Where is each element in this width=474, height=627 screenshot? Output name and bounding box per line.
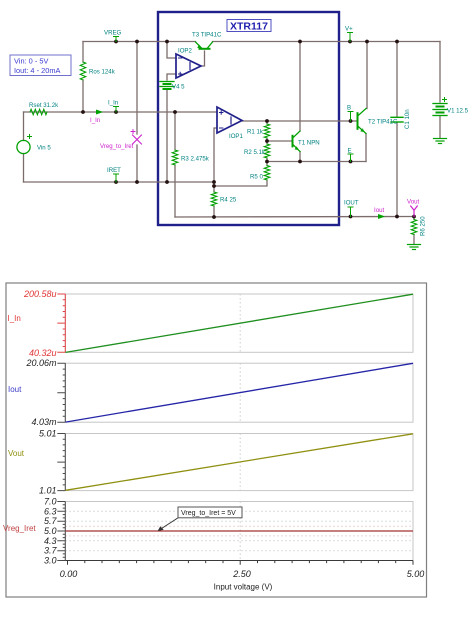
svg-text:I_In: I_In	[8, 314, 21, 323]
node V+ pin	[348, 40, 352, 44]
wire IOP1 minus / R4 vertical	[214, 128, 217, 192]
svg-text:T1 NPN: T1 NPN	[298, 140, 320, 147]
node V4 bottom	[165, 180, 169, 184]
svg-text:Vout: Vout	[407, 199, 420, 206]
wire T1 base	[267, 140, 292, 142]
wire C1 top lead	[396, 42, 398, 118]
wire V1 battery top lead	[439, 42, 441, 103]
wire Ros vertical (VREG to I_In node)	[82, 42, 84, 63]
svg-text:Vout: Vout	[8, 449, 25, 458]
node IRET pin	[114, 180, 118, 184]
node R2/R5 junction on E net	[265, 160, 269, 164]
node T2 collector on V+	[365, 40, 369, 44]
resistor R4 25	[211, 192, 217, 206]
svg-text:R4 25: R4 25	[220, 197, 237, 204]
svg-text:B: B	[347, 105, 351, 112]
wire R3 vertical (I_In to IOUT rail)	[174, 112, 176, 150]
node probe bottom	[135, 180, 139, 184]
svg-text:Iout: Iout	[374, 207, 384, 214]
op-amp IOP1	[217, 107, 242, 133]
wire probe vertical lower (X probe to IRET rail)	[136, 145, 138, 182]
op-amp IOP2	[176, 54, 201, 78]
trace Vout (olive)	[66, 434, 414, 491]
svg-text:Ros 124k: Ros 124k	[89, 69, 116, 76]
wire VREG rail (top left segment)	[83, 41, 196, 43]
XTR117 device boundary box	[158, 12, 339, 225]
node T1 collector on V+	[298, 40, 302, 44]
wire R1-R2 chain stubs	[266, 121, 268, 124]
node E pin	[349, 160, 353, 164]
node Vout pin	[412, 215, 416, 219]
svg-text:Vin: 0 - 5V: Vin: 0 - 5V	[14, 57, 48, 66]
trace I_In (green)	[66, 294, 414, 352]
node R5 return	[212, 184, 216, 188]
node T1 base tap	[265, 139, 269, 143]
node IOUT pin	[349, 215, 353, 219]
svg-text:IOP1: IOP1	[229, 133, 243, 140]
svg-text:20.06m: 20.06m	[25, 358, 57, 368]
battery V4 5	[160, 82, 174, 90]
transistor T1 NPN	[293, 131, 301, 152]
svg-text:I_In: I_In	[108, 100, 118, 107]
wire T1 collector to V+ rail	[299, 42, 301, 132]
svg-text:E: E	[348, 148, 352, 155]
battery V1 12.5	[433, 98, 447, 116]
svg-text:T2 TIP41C: T2 TIP41C	[368, 119, 398, 126]
trace Vreg_Iret (dark red)	[66, 530, 414, 532]
wire R5 bottom return	[214, 180, 267, 186]
trace Iout (blue)	[66, 363, 414, 422]
node B pin	[349, 119, 353, 123]
wire IOP2 minus input from VREG rail	[167, 42, 176, 59]
resistor Ros 124k	[80, 62, 86, 80]
ground for V1	[434, 139, 447, 144]
wire V4 bottom to IRET rail	[166, 89, 168, 182]
svg-text:R3 2.475k: R3 2.475k	[181, 156, 210, 163]
wire C1 bottom lead	[396, 123, 398, 217]
pin tick IOUT	[348, 207, 353, 217]
svg-text:Vreg_to_Iret = 5V: Vreg_to_Iret = 5V	[181, 510, 236, 517]
capacitor C1 10n	[391, 117, 403, 122]
svg-text:T3 TIP41C: T3 TIP41C	[192, 32, 222, 39]
svg-text:Vreg_Iret: Vreg_Iret	[3, 524, 36, 533]
plot window outer border	[6, 283, 427, 597]
annotation callout Vreg_to_Iret = 5V	[158, 507, 243, 531]
wire IRET rail	[24, 181, 215, 183]
probe X Vreg_to_Iret	[131, 130, 142, 145]
dotted horizontal gridlines plot4	[65, 511, 413, 550]
svg-text:R2 5.1k: R2 5.1k	[244, 149, 266, 156]
plot1 y-axis (red)	[57, 294, 65, 352]
pin tick VREG	[114, 37, 119, 42]
junction dots	[81, 40, 416, 219]
svg-text:V+: V+	[345, 26, 353, 33]
svg-text:0.00: 0.00	[60, 569, 78, 579]
resistor Rset 31.2k	[30, 109, 47, 115]
svg-text:Rset 31.2k: Rset 31.2k	[29, 102, 59, 109]
wire T2 emitter vertical	[365, 134, 367, 162]
schematic text labels (teal)	[29, 26, 469, 237]
node C1 bottom	[395, 215, 399, 219]
svg-text:2.50: 2.50	[232, 569, 251, 579]
svg-text:Vreg_to_Iret: Vreg_to_Iret	[100, 143, 134, 150]
svg-text:Iout: Iout	[8, 385, 22, 394]
wire V1 battery bottom to ground	[439, 116, 441, 138]
current arrow I_In	[97, 110, 103, 114]
wire probe vertical upper (VREG to X probe)	[136, 42, 138, 135]
svg-text:I_In: I_In	[90, 117, 100, 124]
wire V+ rail (top right segment)	[213, 41, 441, 43]
svg-text:Iout: 4 - 20mA: Iout: 4 - 20mA	[14, 66, 60, 75]
ground for R6	[408, 245, 421, 250]
voltage source Vin 5 (circle)	[17, 140, 30, 153]
dotted vertical gridlines at 2.50	[239, 294, 241, 561]
green component symbols	[17, 33, 447, 250]
wire IOP2 output to T3 base	[201, 51, 205, 66]
resistor R2 5.1k	[264, 144, 270, 158]
svg-text:7.0: 7.0	[44, 497, 57, 507]
pin tick I_In	[114, 107, 119, 113]
pin Vout (magenta)	[411, 206, 418, 216]
svg-text:6.3: 6.3	[44, 506, 57, 516]
resistor R6 250	[411, 220, 417, 235]
node Ros bottom	[81, 110, 85, 114]
svg-text:Vin 5: Vin 5	[37, 145, 51, 152]
plot3 y-axis	[57, 434, 65, 491]
wire R6 leads	[413, 217, 415, 220]
svg-text:V1 12.5: V1 12.5	[447, 108, 469, 115]
resistor R1 1k	[264, 124, 270, 138]
svg-text:XTR117: XTR117	[230, 21, 268, 33]
subplot frames	[65, 294, 413, 561]
current arrow Iout	[379, 214, 385, 218]
svg-text:VREG: VREG	[104, 30, 122, 37]
wire I_In net (Rset to IOP1 plus input)	[24, 111, 218, 113]
XTR117 title label	[227, 20, 271, 33]
svg-text:4.03m: 4.03m	[31, 417, 57, 427]
svg-text:C1 10n: C1 10n	[404, 109, 411, 129]
wire E net	[267, 161, 366, 163]
svg-text:3.7: 3.7	[44, 546, 58, 556]
node R3 top	[173, 110, 177, 114]
pin tick B	[348, 112, 353, 122]
annotation text box: Vin / Iout ranges	[10, 55, 71, 76]
svg-text:5.7: 5.7	[44, 516, 58, 526]
svg-text:IOUT: IOUT	[344, 200, 359, 207]
transistor T3 TIP41C	[196, 42, 213, 49]
wire IOP2 plus input to V4	[167, 74, 176, 80]
x-axis	[65, 561, 413, 565]
svg-text:5.0: 5.0	[44, 526, 57, 536]
PLOTS	[3, 283, 427, 597]
svg-text:5.01: 5.01	[39, 429, 57, 439]
wire IOUT rail	[175, 216, 414, 219]
node I_In pin	[114, 110, 118, 114]
node IOP2 minus junction	[165, 40, 169, 44]
svg-text:R6 250: R6 250	[420, 216, 427, 236]
node T1 emitter on E net	[298, 160, 302, 164]
pin tick E	[348, 154, 353, 162]
pin tick IRET	[114, 174, 119, 182]
pin tick V+	[348, 33, 353, 42]
node C1 top	[395, 40, 399, 44]
resistor R5 0	[264, 166, 270, 181]
node probe top junction	[135, 40, 139, 44]
svg-text:4.3: 4.3	[44, 536, 57, 546]
svg-text:R1 1k: R1 1k	[247, 129, 264, 136]
plot text labels	[23, 289, 424, 579]
svg-text:R5 0: R5 0	[250, 174, 263, 181]
plot4 y-axis	[57, 502, 65, 561]
resistor R3 2.475k	[172, 150, 178, 165]
wire T1 emitter to E net	[299, 152, 301, 162]
wire T2 collector to V+ rail	[366, 42, 368, 109]
svg-text:Input voltage (V): Input voltage (V)	[214, 583, 273, 592]
svg-text:200.58u: 200.58u	[23, 289, 57, 299]
svg-text:IOP2: IOP2	[178, 48, 192, 55]
wire B pin to T2 base	[351, 120, 357, 122]
wire Vin source leads	[23, 112, 25, 141]
magenta labels	[90, 117, 420, 214]
transistor T2 TIP41C	[358, 109, 367, 134]
node IRET rail end / R4 top	[212, 180, 216, 184]
node R1 top / op-amp output	[265, 119, 269, 123]
svg-text:5.00: 5.00	[407, 569, 425, 579]
svg-text:IRET: IRET	[107, 167, 121, 174]
plot2 y-axis	[57, 363, 65, 422]
svg-text:V4 5: V4 5	[172, 84, 185, 91]
svg-text:1.01: 1.01	[39, 486, 57, 496]
node R4 bottom	[212, 215, 216, 219]
svg-text:3.0: 3.0	[44, 556, 57, 566]
node VREG pin junction	[114, 40, 118, 44]
wire IOP1 output / B net	[242, 120, 351, 122]
svg-text:40.32u: 40.32u	[29, 348, 57, 358]
